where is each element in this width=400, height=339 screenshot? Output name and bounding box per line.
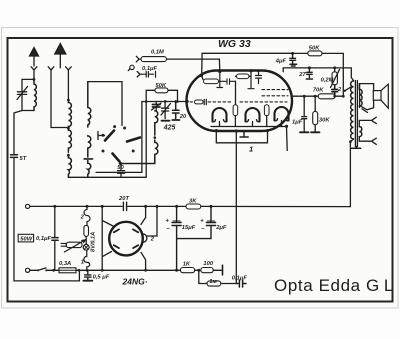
electrolytic 2uF — [177, 206, 216, 238]
node 4uF — [291, 52, 294, 55]
capacitor 27 — [307, 68, 313, 78]
resistor 1M wires — [199, 270, 238, 283]
node fuse right — [78, 269, 81, 272]
ground 4uF — [290, 64, 297, 66]
transformer tertiary — [359, 127, 362, 137]
coil L3c — [88, 161, 91, 178]
capacitor 0,1uF bottom — [239, 280, 246, 287]
svg-text:1м: 1м — [209, 279, 217, 285]
heater wavy 2 — [84, 206, 90, 225]
ground 0,5uF — [83, 280, 92, 282]
node bus 15uF — [175, 205, 178, 208]
tube internal capacitor a — [219, 79, 236, 85]
svg-text:0,3A: 0,3A — [59, 261, 71, 267]
wire anode to 70K — [292, 95, 318, 97]
ground transformer core — [352, 147, 361, 149]
tube internal resistor v2 — [264, 105, 269, 116]
heater bracket — [216, 131, 267, 143]
svg-text:0,2M: 0,2M — [321, 77, 334, 83]
wire rect anode left — [102, 206, 113, 270]
wire tertiary bottom fork — [359, 137, 376, 145]
node 30K top — [314, 95, 317, 98]
resistor 0,1M body — [141, 57, 167, 62]
node L2 tap — [67, 127, 70, 130]
resistor 3K body — [186, 204, 201, 209]
connector 0,1uF input — [137, 72, 140, 77]
svg-text:WG 33: WG 33 — [218, 38, 251, 50]
bottom mains wire — [30, 269, 177, 271]
tube internal capacitor d — [256, 71, 262, 84]
barretter slider arrow — [64, 240, 85, 252]
tube envelope — [187, 71, 293, 132]
svg-text:30K: 30K — [319, 117, 330, 123]
cathode arc 2 — [246, 108, 260, 122]
switch wedge 1 — [105, 131, 114, 141]
capacitor 4uF — [290, 53, 296, 63]
ground 20 — [172, 119, 179, 121]
box 50W — [18, 234, 33, 242]
wire heater resistor to lamp — [85, 236, 87, 244]
switch contacts — [102, 134, 105, 137]
terminal bar 100 — [222, 265, 224, 275]
node tube bottom b — [235, 129, 238, 132]
capacitor 0,1uF mains — [52, 238, 58, 241]
tube grid dashes left — [190, 101, 194, 103]
wire L3 top — [88, 82, 122, 126]
switch wedge 2 — [127, 138, 140, 142]
main grid line to tube — [142, 101, 188, 103]
coil L4b — [121, 140, 158, 164]
tuned circuit: top wire — [22, 79, 34, 91]
node 425 — [164, 100, 167, 103]
node switch-fuse — [52, 269, 55, 272]
node bus a — [53, 205, 56, 208]
speaker cone box — [373, 91, 381, 101]
cathode arc 3 — [275, 107, 289, 120]
svg-text:50: 50 — [117, 165, 124, 171]
ground under tube — [240, 131, 248, 137]
variable capacitor antenna plates — [17, 92, 26, 95]
ground 1uF — [300, 131, 309, 133]
svg-text:50K: 50K — [155, 83, 166, 89]
wire input3 down — [67, 70, 69, 100]
tube internal resistor v1 — [233, 105, 238, 116]
wire top plate lead — [202, 53, 293, 75]
resistor 1M body — [207, 281, 221, 286]
primary tap arrow — [345, 87, 351, 91]
node rect right bottom — [144, 269, 147, 272]
svg-text:2μF: 2μF — [215, 225, 227, 231]
node coil top — [67, 99, 70, 102]
svg-text:100: 100 — [203, 261, 213, 267]
ground 30K — [311, 131, 320, 133]
node 1uF top — [303, 95, 306, 98]
capacitor 50 — [118, 164, 125, 178]
antenna A1 arrow — [33, 56, 35, 66]
wire L2 bottom — [68, 176, 146, 178]
rectifier electrode SW — [114, 245, 119, 248]
svg-text:+: + — [200, 219, 204, 225]
svg-text:0,1M: 0,1M — [151, 50, 164, 56]
lamp 8V — [83, 244, 89, 250]
cathode arc 1 — [213, 108, 227, 122]
speaker horn — [381, 84, 388, 108]
wire tube right stub — [286, 126, 289, 150]
connector input 2 — [48, 67, 54, 70]
wire 5T down to return — [14, 158, 79, 281]
tube grid dashes right2 — [262, 95, 288, 97]
capacitor 0,5uF — [85, 270, 91, 280]
node bus heater — [86, 205, 89, 208]
variable capacitor 425 — [162, 102, 169, 119]
terminal mains top — [26, 204, 30, 208]
potentiometer 0,2M arrow — [331, 70, 340, 88]
svg-text:425: 425 — [163, 125, 176, 132]
svg-text:1: 1 — [249, 145, 253, 154]
schematic frame — [8, 38, 393, 302]
node bus 2uF — [210, 205, 213, 208]
tube internal resistor c — [237, 74, 250, 79]
connector input 3 — [66, 67, 72, 70]
svg-text:1: 1 — [81, 260, 84, 266]
svg-text:5T: 5T — [20, 156, 27, 162]
coil L2c — [68, 155, 71, 177]
tube internal resistor a — [201, 75, 203, 79]
tube internal cap left plates — [204, 99, 206, 104]
node 50K branch right — [176, 100, 179, 103]
node bus rect tap — [156, 205, 159, 208]
svg-text:1K: 1K — [183, 261, 191, 267]
node 1K right — [197, 269, 200, 272]
tube grid dashes mid — [208, 101, 233, 103]
polarity 15uF — [166, 219, 206, 233]
resistor 50K top wires — [293, 53, 344, 96]
heater resistor body — [84, 225, 89, 236]
switch mains — [37, 269, 39, 271]
capacitor 0,1uF input — [140, 71, 156, 77]
wire rect anode right — [141, 206, 146, 270]
coil L4a — [155, 111, 158, 135]
resistor 50K top body — [308, 51, 322, 56]
resistor 30K body — [314, 96, 316, 131]
wire heater center to cap — [236, 206, 239, 283]
coil L2b — [68, 128, 71, 152]
svg-text:70K: 70K — [313, 87, 324, 93]
resistor 50K left: wires — [146, 90, 177, 101]
core bar L3 — [84, 158, 93, 160]
tube grid dashes right3 — [262, 89, 288, 91]
barretter slider body — [66, 242, 82, 247]
svg-text:0,1μF: 0,1μF — [36, 236, 52, 242]
tube internal resistor leftpill — [195, 100, 204, 104]
potentiometer 0,2M body — [334, 68, 336, 72]
wire osc vertical a — [141, 102, 143, 173]
svg-text:Opta Edda G L: Opta Edda G L — [274, 276, 394, 295]
HT bus wire — [28, 205, 351, 207]
wire secondary top to speaker — [359, 84, 373, 90]
svg-text:4μF: 4μF — [275, 58, 287, 64]
tube internal wire down — [235, 81, 237, 104]
antenna A2 arrow — [59, 54, 61, 68]
antenna A1 connector — [31, 67, 37, 70]
wire cap bottom — [22, 95, 34, 111]
coil L3b — [88, 136, 91, 157]
electrolytic 15uF — [172, 206, 181, 270]
switch wedge 3 — [113, 154, 120, 162]
node tube bottom a — [215, 129, 218, 132]
wire tuned circuit to ground line — [14, 111, 22, 155]
tube grid dashes right — [240, 101, 287, 103]
tube internal vertical c to ground — [248, 71, 254, 89]
svg-text:0,1μF: 0,1μF — [142, 66, 158, 72]
node 27 — [308, 66, 311, 69]
wire osc vertical b — [145, 102, 147, 178]
anode line from tube — [283, 68, 353, 81]
terminal mains bottom — [26, 268, 30, 272]
node heater bottom — [86, 269, 89, 272]
rectifier cathode loop 2 — [143, 234, 147, 243]
node bus rect right — [144, 205, 147, 208]
transformer core — [355, 81, 357, 147]
rectifier electrode NW — [114, 229, 119, 232]
wire A1 down — [33, 70, 35, 79]
node tube top c — [249, 69, 252, 72]
ground 425 — [162, 120, 170, 122]
node 20 — [174, 100, 177, 103]
node tube bottom c — [266, 129, 269, 132]
node 1K left — [175, 269, 178, 272]
tube internal vertical grid lead — [217, 71, 223, 87]
rectifier electrode NE — [133, 229, 138, 232]
speaker magnet outline — [360, 84, 374, 110]
fuse 0,3A — [59, 268, 76, 273]
wire secondary bottom — [358, 106, 360, 108]
svg-text:1μF: 1μF — [292, 120, 303, 126]
wire heater center down — [235, 131, 237, 206]
node L2 tap2 — [67, 154, 70, 157]
speaker tail — [362, 109, 368, 113]
resistor 70K body — [318, 94, 335, 99]
wire mid tap — [96, 171, 142, 173]
resistor 100 body — [201, 268, 213, 273]
node tube top d — [257, 69, 260, 72]
svg-text:3K: 3K — [189, 199, 197, 205]
capacitor 20T — [123, 202, 126, 210]
capacitor 2 — [332, 85, 338, 96]
resistor 50K left body — [155, 88, 168, 93]
transformer secondary — [359, 89, 362, 106]
svg-text:50W: 50W — [20, 237, 32, 243]
tube cathode rail — [211, 126, 287, 128]
switch T contact — [98, 132, 105, 140]
rectifier circle — [109, 222, 143, 256]
pickup symbol — [130, 65, 134, 69]
wire tertiary top fork — [359, 117, 376, 126]
node 0,1M at tube — [218, 70, 221, 73]
svg-text:0,1μF: 0,1μF — [232, 276, 248, 282]
capacitor 1uF — [302, 96, 307, 131]
svg-text:27: 27 — [298, 72, 306, 78]
resistor 0,1M wires — [139, 59, 220, 71]
capacitor 5T — [11, 155, 18, 158]
svg-text:20: 20 — [179, 114, 187, 120]
wire input2 down — [51, 70, 68, 128]
svg-text:+: + — [166, 219, 170, 225]
svg-text:8V/0,1A: 8V/0,1A — [91, 232, 97, 252]
node 70K right — [333, 95, 336, 98]
wire 70K right — [335, 95, 343, 97]
node rect left bottom — [101, 269, 104, 272]
ground 27 — [306, 78, 312, 80]
coil L1 antenna — [34, 79, 36, 110]
trimmer cap hatched — [153, 105, 161, 108]
coil L3a oscillator — [88, 82, 91, 127]
transformer primary bottom wire — [350, 139, 353, 207]
node 50K branch left — [145, 100, 148, 103]
rectifier electrode SE — [133, 245, 138, 248]
wire mains cap vertical — [54, 206, 56, 270]
resistor 1K body — [180, 268, 194, 273]
wire rect tap 2 — [147, 206, 157, 236]
svg-text:24NG·: 24NG· — [122, 277, 148, 287]
node tube bottom right — [285, 125, 288, 128]
node 50 cap top — [120, 162, 123, 165]
node 0,2M — [333, 66, 336, 69]
node tube top left — [200, 74, 203, 77]
coil L2a — [68, 100, 71, 128]
capacitor 20 — [173, 102, 180, 119]
transformer primary — [351, 81, 354, 139]
node antenna A1 junction — [33, 78, 36, 81]
variable capacitor arrow — [17, 87, 28, 100]
svg-text:15μF: 15μF — [182, 225, 196, 231]
connector 0,1M input — [136, 56, 139, 62]
node coil L4 tap — [154, 136, 157, 139]
svg-text:50K: 50K — [309, 45, 320, 51]
node bus rect left — [101, 205, 104, 208]
svg-text:0,5 μF: 0,5 μF — [93, 274, 110, 280]
heater wavy 1 — [84, 250, 90, 270]
svg-text:20T: 20T — [118, 196, 129, 202]
